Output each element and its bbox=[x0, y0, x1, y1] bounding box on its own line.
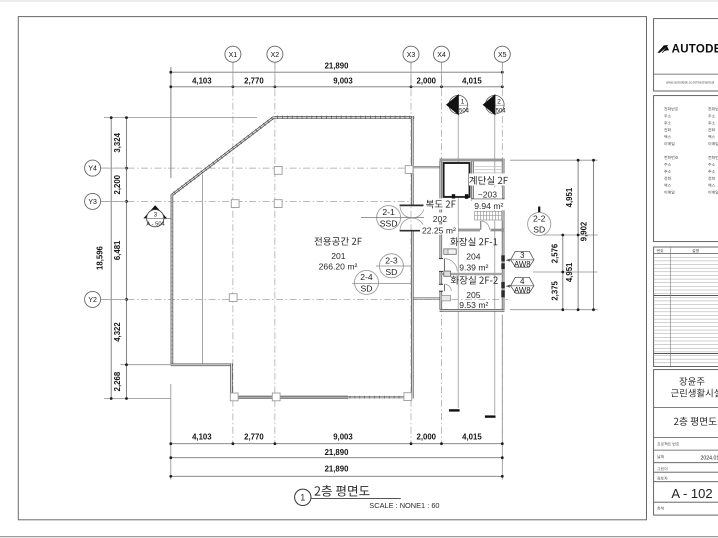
wall west bbox=[171, 194, 174, 365]
toilet fixture 3 bbox=[442, 295, 451, 301]
svg-text:SD: SD bbox=[361, 284, 373, 294]
svg-text:201: 201 bbox=[331, 251, 346, 261]
svg-text:A - 102: A - 102 bbox=[671, 486, 712, 501]
section line 1 bbox=[457, 115, 459, 409]
section marker 2 bbox=[486, 95, 505, 114]
wall step horizontal bbox=[171, 363, 233, 366]
interior line bbox=[202, 175, 204, 365]
toilet door 2F-1 bbox=[443, 259, 445, 272]
door gap toilet 2F-1 bbox=[439, 259, 443, 271]
svg-text:SD: SD bbox=[385, 267, 397, 277]
svg-text:2,200: 2,200 bbox=[113, 174, 122, 194]
tag leader 2-4 bbox=[352, 283, 412, 285]
svg-text:- 504: - 504 bbox=[455, 109, 469, 115]
room label 화장실 2F-2 205 bbox=[451, 276, 498, 285]
grid line X2 bbox=[274, 62, 276, 443]
titleblock logo box bbox=[654, 19, 718, 91]
svg-text:1: 1 bbox=[300, 493, 305, 503]
svg-text:205: 205 bbox=[466, 290, 481, 300]
svg-text:3,324: 3,324 bbox=[113, 132, 122, 152]
svg-text:X5: X5 bbox=[498, 52, 507, 59]
svg-text:4,103: 4,103 bbox=[192, 76, 212, 85]
svg-text:4: 4 bbox=[520, 277, 525, 286]
svg-text:2-1: 2-1 bbox=[382, 207, 395, 217]
toilet door 2F-2 bbox=[443, 284, 445, 291]
curtain wall mullion ticks diagonal bbox=[174, 192, 176, 195]
room label 화장실 2F-1 204 bbox=[450, 237, 497, 246]
svg-text:www.autodesk.co.kr/mechanical: www.autodesk.co.kr/mechanical bbox=[666, 81, 714, 85]
svg-text:2-2: 2-2 bbox=[533, 213, 546, 223]
tag AW8 4 bbox=[506, 285, 511, 286]
view title circle 1 bbox=[295, 489, 311, 505]
core wall left bbox=[439, 159, 442, 312]
double door 2-1 swing arcs bbox=[400, 206, 424, 218]
grid line Y2 bbox=[101, 298, 508, 300]
svg-text:4,015: 4,015 bbox=[462, 76, 482, 85]
svg-text:X4: X4 bbox=[437, 52, 446, 59]
tag 2-3 SD bbox=[379, 254, 403, 278]
svg-text:204: 204 bbox=[466, 251, 481, 261]
client name bbox=[679, 377, 704, 385]
svg-text:X1: X1 bbox=[229, 52, 238, 59]
wall top (curtain) bbox=[274, 116, 415, 119]
wall step vertical bbox=[230, 364, 233, 398]
svg-text:21,890: 21,890 bbox=[325, 448, 350, 457]
svg-text:2,770: 2,770 bbox=[244, 432, 264, 441]
stair door bbox=[480, 221, 482, 230]
svg-text:266.20 m²: 266.20 m² bbox=[319, 261, 358, 271]
svg-text:2-3: 2-3 bbox=[385, 255, 398, 265]
extension lines right dims bbox=[510, 159, 598, 161]
svg-text:SD: SD bbox=[533, 225, 545, 235]
svg-text:- 504: - 504 bbox=[492, 109, 506, 115]
titleblock project box bbox=[654, 370, 718, 515]
wall east upper bbox=[411, 116, 414, 205]
svg-text:9,003: 9,003 bbox=[333, 76, 353, 85]
toilet fixture 2 bbox=[444, 271, 451, 276]
curtain wall mullion ticks top bbox=[277, 116, 279, 119]
extension lines bottom dims bbox=[170, 384, 172, 480]
project name bbox=[671, 389, 718, 398]
dimension 21,890 top bbox=[171, 71, 503, 73]
svg-text:9.39 m²: 9.39 m² bbox=[459, 262, 488, 272]
svg-text:AW8: AW8 bbox=[514, 260, 531, 269]
grid bubble X4 bbox=[441, 62, 443, 87]
tag leader 2-3 bbox=[376, 265, 412, 267]
dimension row bottom: 4,103 / 2,770 / 9,003 / 2,000 / 4,015 bbox=[171, 443, 503, 445]
svg-text:2-4: 2-4 bbox=[360, 272, 373, 282]
dimension column right: 4,951 / 4,951 bbox=[577, 160, 579, 310]
wall bottom solid bbox=[230, 396, 348, 399]
svg-text:4,103: 4,103 bbox=[192, 432, 212, 441]
elevator door jambs bbox=[452, 194, 455, 199]
tag 2-4 SD bbox=[355, 270, 379, 294]
svg-text:AUTODESK: AUTODESK bbox=[672, 43, 718, 55]
svg-text:SSD: SSD bbox=[380, 218, 398, 228]
grid line X5 bbox=[501, 62, 503, 443]
dimension row top: 4,103 / 2,770 / 9,003 / 2,000 / 4,015 bbox=[171, 86, 503, 88]
wall bottom window bbox=[348, 396, 410, 398]
room label 전용공간 2F 201 bbox=[314, 237, 361, 246]
AUTODESK logo bbox=[657, 45, 668, 53]
room label 계단실 2F 203 bbox=[469, 174, 509, 186]
bottom window ticks bbox=[349, 396, 351, 399]
svg-text:2024.01.20: 2024.01.20 bbox=[701, 455, 718, 461]
grid line X3 bbox=[410, 62, 412, 443]
svg-text:2,576: 2,576 bbox=[550, 243, 559, 263]
dimension 9,902 right bbox=[593, 160, 595, 310]
svg-text:2,375: 2,375 bbox=[550, 280, 559, 300]
svg-text:9.94 m²: 9.94 m² bbox=[474, 201, 503, 211]
tag AW8 3 bbox=[506, 259, 511, 260]
svg-text:202: 202 bbox=[433, 214, 448, 224]
view title 2층 평면도 bbox=[315, 485, 370, 496]
svg-text:21,890: 21,890 bbox=[325, 62, 350, 71]
grid bubble Y4 bbox=[101, 167, 127, 169]
wall stair back bbox=[471, 198, 504, 200]
section marker 1 bbox=[449, 95, 468, 114]
titleblock revision table bbox=[654, 247, 718, 367]
svg-text:18,596: 18,596 bbox=[96, 245, 105, 270]
svg-text:22.25 m²: 22.25 m² bbox=[422, 225, 456, 235]
titleblock contact box bbox=[654, 96, 718, 242]
svg-text:3: 3 bbox=[520, 251, 524, 260]
section line 2 bbox=[494, 115, 496, 415]
tag 2-1 SSD bbox=[377, 206, 401, 230]
svg-text:6,481: 6,481 bbox=[113, 240, 122, 260]
page edge lines bbox=[0, 0, 718, 2]
grid bubble Y2 bbox=[101, 298, 127, 300]
dimension column left: 3,324 / 2,200 / 6,481 / 4,322 / 2,268 bbox=[126, 118, 128, 399]
tag 2-2 SD bbox=[538, 207, 540, 213]
stair upper treads bbox=[475, 166, 503, 168]
grid line X4 bbox=[441, 62, 443, 443]
dimension column right: 2,576 / 2,375 bbox=[562, 235, 564, 310]
svg-text:2,000: 2,000 bbox=[416, 432, 436, 441]
wall shaft-stair divider bbox=[471, 161, 473, 199]
wall toilet divider bbox=[441, 273, 503, 275]
svg-text:~203: ~203 bbox=[478, 189, 498, 199]
svg-text:2: 2 bbox=[497, 98, 501, 105]
grid bubble X5 bbox=[501, 62, 503, 87]
grid bubble X2 bbox=[274, 62, 276, 87]
core wall top bbox=[440, 159, 505, 162]
svg-text:4,951: 4,951 bbox=[565, 262, 574, 282]
svg-text:9,902: 9,902 bbox=[579, 221, 588, 241]
wall east lower bbox=[411, 231, 414, 399]
columns bbox=[231, 200, 239, 208]
extension line top-left corner bbox=[104, 117, 257, 119]
extension line left bottom bbox=[104, 398, 171, 400]
sheet title bbox=[674, 417, 717, 426]
svg-text:Y2: Y2 bbox=[88, 297, 97, 304]
svg-text:4,322: 4,322 bbox=[113, 322, 122, 342]
svg-text:2,770: 2,770 bbox=[244, 76, 264, 85]
toilet fixture 1 bbox=[444, 249, 456, 254]
grid line Y3 bbox=[101, 200, 414, 202]
svg-text:X3: X3 bbox=[407, 52, 416, 59]
svg-text:Y3: Y3 bbox=[88, 199, 97, 206]
svg-text:9.53 m²: 9.53 m² bbox=[459, 300, 488, 310]
svg-text:4,015: 4,015 bbox=[462, 432, 482, 441]
svg-text:4,951: 4,951 bbox=[565, 187, 574, 207]
grid bubble X1 bbox=[232, 62, 234, 87]
wall stair-toilet divider bbox=[440, 229, 481, 231]
core wall right bbox=[502, 159, 505, 312]
room label 복도 2F 202 bbox=[424, 199, 458, 210]
svg-text:A - 504: A - 504 bbox=[146, 222, 165, 228]
AW8 window 4 bbox=[501, 282, 505, 288]
svg-text:SCALE : NONE1 : 60: SCALE : NONE1 : 60 bbox=[369, 501, 439, 510]
section marker 3 bbox=[143, 205, 167, 218]
svg-text:AW8: AW8 bbox=[514, 286, 531, 295]
svg-text:1: 1 bbox=[461, 98, 465, 105]
double door 2-1 leaf lines bbox=[400, 204, 425, 206]
svg-text:2,268: 2,268 bbox=[113, 371, 122, 391]
stair lower flight bbox=[475, 211, 503, 220]
grid bubble X3 bbox=[410, 62, 412, 87]
west wall hatch ticks bbox=[171, 197, 174, 199]
AW8 window 3 bbox=[501, 255, 505, 261]
extension line left step bbox=[121, 364, 171, 366]
tag leader 2-1 bbox=[361, 217, 424, 219]
svg-text:21,890: 21,890 bbox=[325, 465, 350, 474]
dimension 18,596 left bbox=[110, 118, 112, 399]
door gap toilet 2F-2 bbox=[439, 285, 443, 291]
svg-text:Y4: Y4 bbox=[88, 166, 97, 173]
grid bubble Y3 bbox=[101, 200, 127, 202]
wall diagonal (curtain) bbox=[172, 117, 274, 195]
svg-text:9,003: 9,003 bbox=[333, 432, 353, 441]
core wall bottom bbox=[440, 309, 505, 312]
svg-text:2,000: 2,000 bbox=[416, 76, 436, 85]
elevator shaft bbox=[444, 163, 470, 197]
grid line X1 bbox=[232, 62, 234, 443]
wall corridor top bbox=[414, 166, 441, 168]
grid line Y4 bbox=[101, 167, 413, 169]
wall corridor bottom bbox=[414, 297, 441, 299]
svg-text:X2: X2 bbox=[271, 52, 280, 59]
dimension 21,890 bottom 1 bbox=[171, 457, 503, 459]
dimension 21,890 bottom 2 bbox=[171, 475, 503, 477]
